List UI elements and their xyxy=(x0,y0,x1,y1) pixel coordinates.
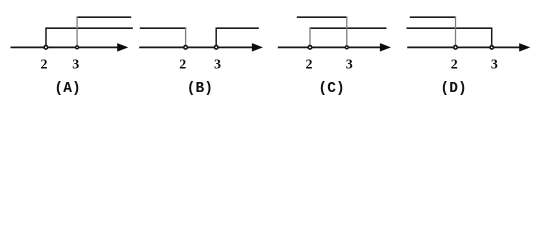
panel D wire top level xyxy=(410,16,456,18)
panel A axis xyxy=(11,46,120,48)
svg-text:2: 2 xyxy=(41,58,48,73)
panel A wire mid level xyxy=(46,27,133,29)
svg-text:2: 2 xyxy=(451,58,458,73)
panel C vertical at t=3 xyxy=(346,17,348,46)
panel A node circle at t=3 xyxy=(76,46,79,49)
svg-text:3: 3 xyxy=(72,58,79,73)
panel B axis xyxy=(139,46,253,48)
panel D axis arrowhead xyxy=(519,43,530,52)
svg-text:2: 2 xyxy=(306,58,313,73)
panel D vertical at t=3 xyxy=(491,28,493,46)
panel B node circle at t=3 xyxy=(214,46,218,50)
panel B vertical at t=3 xyxy=(215,28,217,46)
panel C axis arrowhead xyxy=(380,43,391,52)
svg-text:(A): (A) xyxy=(54,81,80,97)
panel C wire top level xyxy=(297,16,348,18)
panel C node circle at t=2 xyxy=(308,46,312,50)
svg-text:(D): (D) xyxy=(440,81,466,97)
panel D wire mid level xyxy=(407,27,493,29)
panel B axis arrowhead xyxy=(252,43,263,52)
panel C axis xyxy=(278,46,382,48)
panel B node circle at t=2 xyxy=(184,46,188,50)
panel D axis xyxy=(407,46,521,48)
panel A wire top level xyxy=(76,16,131,18)
svg-text:3: 3 xyxy=(346,58,353,73)
svg-text:3: 3 xyxy=(491,58,498,73)
svg-text:3: 3 xyxy=(214,58,221,73)
panel B wire right high segment xyxy=(216,27,259,29)
svg-text:2: 2 xyxy=(179,58,186,73)
panel C vertical at t=2 xyxy=(309,28,311,46)
panel D vertical at t=2 xyxy=(455,17,457,46)
panel C node circle at t=3 xyxy=(345,46,348,49)
panel B vertical at t=2 xyxy=(185,28,187,46)
panel A vertical at t=2 xyxy=(45,28,47,46)
panel B wire left high segment xyxy=(140,27,187,29)
panel C wire mid level xyxy=(309,27,386,29)
svg-text:(C): (C) xyxy=(318,81,344,97)
panel D node circle at t=3 xyxy=(490,46,493,49)
panel D node circle at t=2 xyxy=(454,46,458,50)
panel A node circle at t=2 xyxy=(44,46,48,50)
svg-text:(B): (B) xyxy=(187,81,213,97)
panel A axis arrowhead xyxy=(117,43,128,52)
panel A vertical at t=3 xyxy=(76,17,78,46)
